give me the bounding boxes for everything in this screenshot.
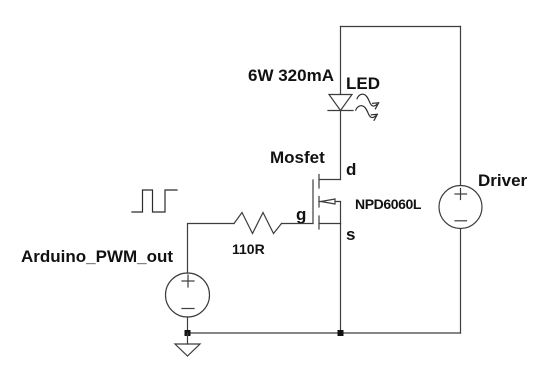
PWM waveform glyph <box>132 190 177 212</box>
svg-text:NPD6060L: NPD6060L <box>355 196 422 212</box>
wire: gate run from V1 top corner to resistor <box>188 224 235 274</box>
wire: right rail top <box>460 27 462 186</box>
svg-text:6W 320mA: 6W 320mA <box>248 66 334 85</box>
voltage source V2 Driver <box>439 186 482 229</box>
svg-text:g: g <box>296 205 306 224</box>
svg-text:Driver: Driver <box>478 171 528 190</box>
wire: top rail <box>341 26 461 28</box>
wire: right rail bottom <box>460 229 462 334</box>
wire: LED anode from top rail <box>340 27 342 95</box>
svg-text:LED: LED <box>346 74 380 93</box>
svg-text:s: s <box>346 225 355 244</box>
ground symbol <box>175 333 200 356</box>
wire: MOSFET source down to bottom rail <box>340 224 342 334</box>
voltage source V1 Arduino_PWM_out <box>166 273 210 317</box>
svg-text:110R: 110R <box>232 241 265 257</box>
wire: V1 bottom to ground rail <box>187 317 189 333</box>
wire: resistor to gate <box>282 223 314 225</box>
svg-text:d: d <box>346 160 356 179</box>
svg-text:Arduino_PWM_out: Arduino_PWM_out <box>21 247 173 266</box>
LED light-emission arrows <box>356 94 379 120</box>
wire: bottom rail <box>188 332 461 334</box>
junction at V1 bottom <box>185 330 191 336</box>
svg-text:Mosfet: Mosfet <box>270 148 325 167</box>
resistor R1 <box>234 213 282 234</box>
wire: LED cathode to MOSFET drain <box>340 111 342 180</box>
transistor M1 NPD6060L (N-channel MOSFET) <box>313 175 341 230</box>
junction at MOSFET source on bottom rail <box>338 330 344 336</box>
LED D1 <box>328 95 353 111</box>
